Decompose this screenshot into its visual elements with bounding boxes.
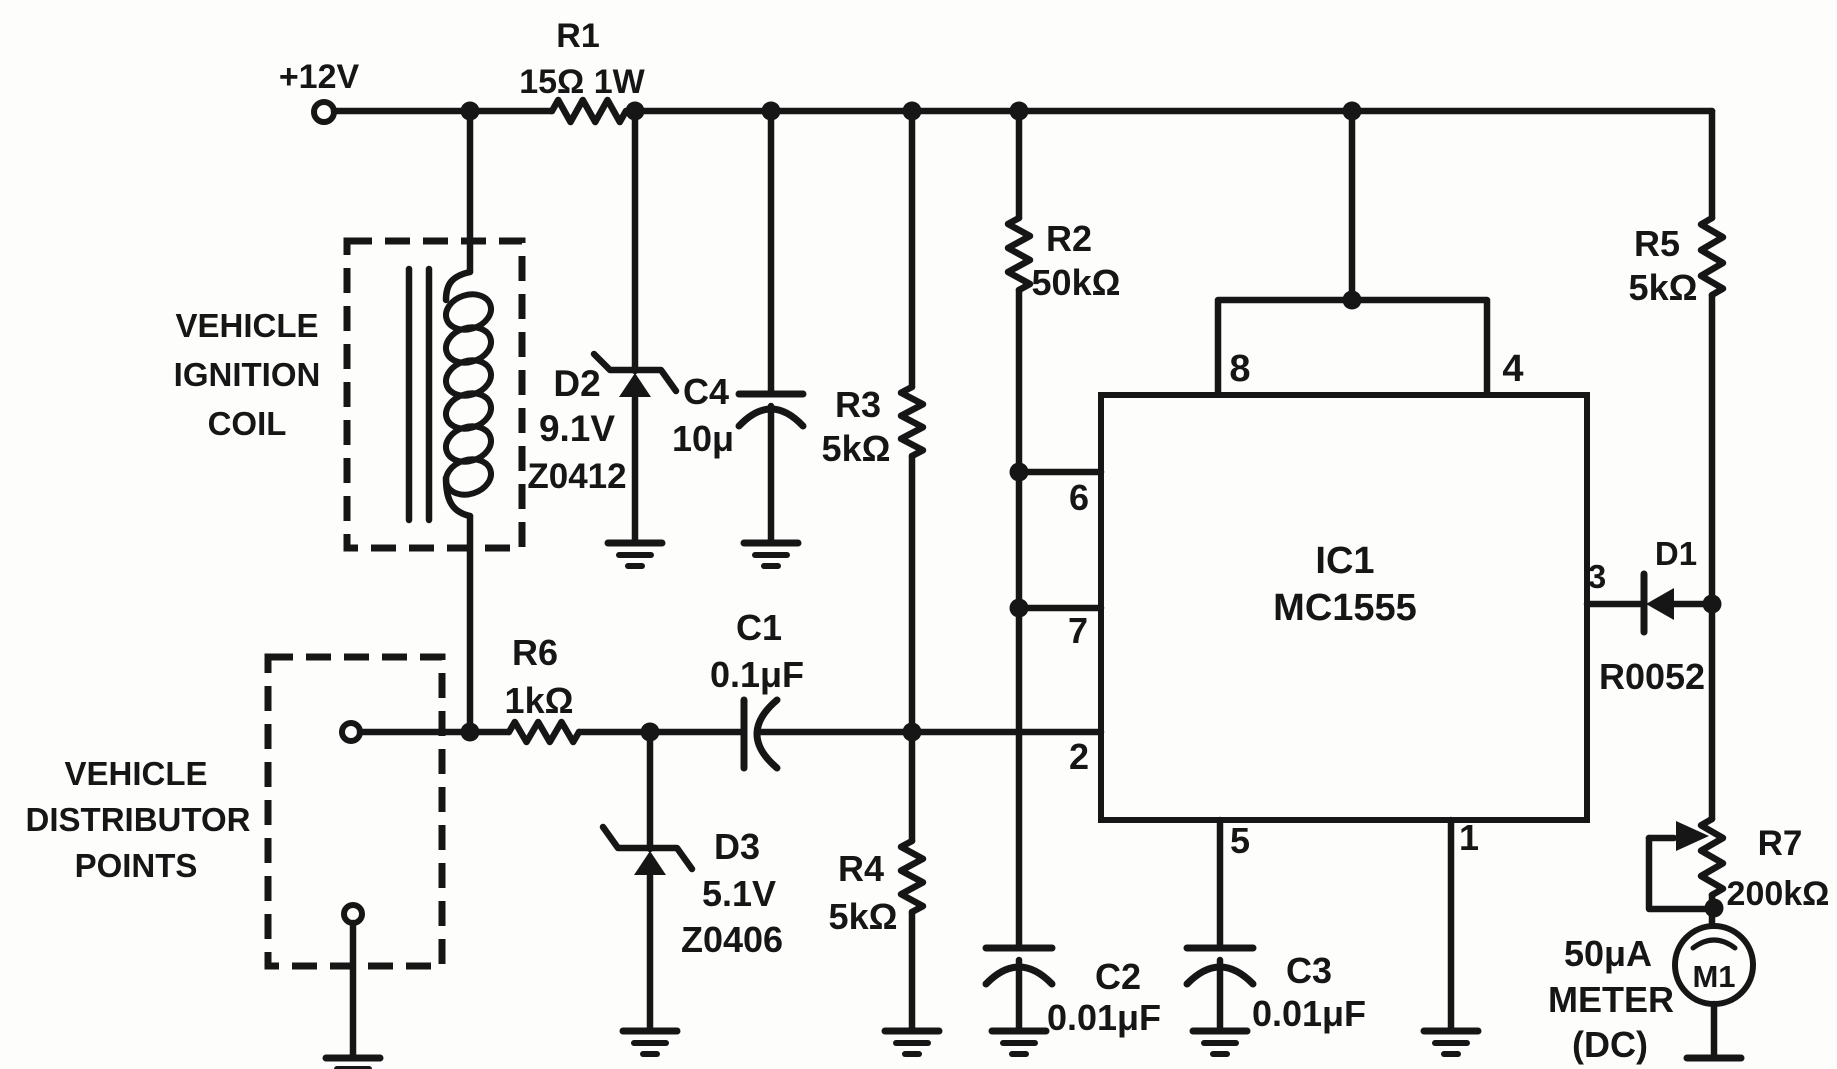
svg-text:D2: D2 bbox=[553, 363, 600, 404]
svg-text:5kΩ: 5kΩ bbox=[1629, 267, 1698, 308]
wire terminal to R6 bbox=[360, 729, 509, 736]
svg-text:C1: C1 bbox=[736, 607, 782, 648]
svg-text:0.01μF: 0.01μF bbox=[1047, 997, 1161, 1038]
svg-text:15Ω 1W: 15Ω 1W bbox=[519, 63, 645, 101]
junction R6 / D3 bbox=[641, 723, 660, 742]
junction points node / coil bbox=[461, 723, 480, 742]
capacitor C3 bbox=[1187, 945, 1253, 952]
ground of C3 bbox=[1193, 1028, 1247, 1035]
svg-text:1kΩ: 1kΩ bbox=[505, 680, 574, 721]
zener diode D3 bbox=[603, 827, 692, 869]
junction top rail / D2 bbox=[626, 102, 645, 121]
ground of meter bbox=[1687, 1055, 1741, 1062]
svg-text:5kΩ: 5kΩ bbox=[822, 428, 891, 469]
wire R4 to ground bbox=[909, 912, 916, 1031]
svg-text:VEHICLE: VEHICLE bbox=[175, 307, 318, 344]
svg-text:200kΩ: 200kΩ bbox=[1727, 875, 1830, 913]
svg-text:0.1μF: 0.1μF bbox=[710, 654, 804, 695]
svg-text:R7: R7 bbox=[1758, 824, 1803, 863]
svg-text:R0052: R0052 bbox=[1599, 656, 1705, 697]
ignition coil dashed box bbox=[347, 241, 522, 548]
ground of R4 bbox=[885, 1028, 939, 1035]
wire pin 7 bbox=[1019, 605, 1101, 612]
junction top rail / pins 8-4 bbox=[1343, 102, 1362, 121]
resistor R5 bbox=[1701, 218, 1723, 295]
resistor R4 bbox=[901, 841, 923, 912]
svg-text:C3: C3 bbox=[1286, 950, 1332, 991]
svg-text:10μ: 10μ bbox=[672, 418, 734, 459]
wire rail down to R3 bbox=[909, 111, 916, 387]
svg-text:MC1555: MC1555 bbox=[1273, 587, 1417, 629]
wire pin 1 bbox=[1448, 820, 1455, 1031]
svg-text:5: 5 bbox=[1230, 820, 1250, 861]
svg-text:D3: D3 bbox=[714, 826, 760, 867]
wire pin2 row down to D3 bbox=[647, 732, 654, 849]
svg-text:METER: METER bbox=[1548, 979, 1674, 1020]
junction top rail / R2 bbox=[1010, 102, 1029, 121]
capacitor C2 bbox=[986, 945, 1052, 952]
wire R6 to C1 bbox=[579, 729, 744, 736]
junction pin2 row / R4 bbox=[903, 723, 922, 742]
wire pin 3 bbox=[1587, 601, 1640, 608]
svg-text:R4: R4 bbox=[838, 848, 884, 889]
svg-text:C4: C4 bbox=[683, 371, 729, 412]
junction bridge top bbox=[1343, 291, 1362, 310]
svg-text:4: 4 bbox=[1502, 348, 1523, 390]
svg-text:0.01μF: 0.01μF bbox=[1252, 993, 1366, 1034]
svg-text:VEHICLE: VEHICLE bbox=[64, 755, 207, 792]
wire pin 6 bbox=[1019, 469, 1101, 476]
wiper return wire of R7 bbox=[1649, 838, 1708, 909]
ground of pin 1 bbox=[1424, 1028, 1478, 1035]
svg-text:50kΩ: 50kΩ bbox=[1032, 262, 1121, 303]
junction top rail / R3 bbox=[903, 102, 922, 121]
junction R7 wiper / meter bbox=[1705, 899, 1724, 918]
svg-text:COIL: COIL bbox=[208, 405, 287, 442]
inductor ignition coil winding bbox=[446, 272, 470, 300]
wire rail down to D2 bbox=[632, 111, 639, 371]
wire distributor terminal to ground bbox=[350, 923, 357, 1058]
zener diode D2 bbox=[594, 354, 676, 391]
svg-text:IC1: IC1 bbox=[1315, 540, 1374, 582]
wiper arrow of R7 bbox=[1649, 835, 1674, 842]
ground of C4 bbox=[744, 540, 798, 547]
svg-text:9.1V: 9.1V bbox=[539, 408, 615, 449]
capacitor C1 bbox=[741, 700, 748, 768]
resistor R3 bbox=[901, 387, 923, 456]
svg-text:1: 1 bbox=[1459, 817, 1479, 858]
node distributor terminal A bbox=[342, 723, 360, 741]
svg-text:DISTRIBUTOR: DISTRIBUTOR bbox=[26, 801, 251, 838]
svg-text:R3: R3 bbox=[835, 384, 881, 425]
node +12V supply terminal bbox=[314, 102, 334, 122]
wire top rail R1 to right corner bbox=[626, 108, 1712, 115]
wire rail down to C4 bbox=[768, 111, 775, 394]
resistor R2 bbox=[1008, 218, 1030, 290]
svg-text:(DC): (DC) bbox=[1572, 1024, 1648, 1065]
wire pin 5 bbox=[1217, 820, 1224, 948]
capacitor C4 bbox=[739, 391, 803, 398]
resistor R7 potentiometer bbox=[1701, 819, 1723, 895]
svg-text:Z0412: Z0412 bbox=[527, 457, 626, 496]
wire R3 to pin2 row bbox=[909, 456, 916, 732]
svg-text:2: 2 bbox=[1069, 736, 1089, 777]
svg-text:IGNITION: IGNITION bbox=[174, 356, 321, 393]
op-amp timer IC1 MC1555 box bbox=[1101, 395, 1587, 820]
junction top rail / ignition coil bbox=[461, 102, 480, 121]
svg-text:5kΩ: 5kΩ bbox=[829, 896, 898, 937]
svg-text:8: 8 bbox=[1229, 348, 1250, 390]
wire rail down to R2 bbox=[1016, 111, 1023, 218]
svg-text:6: 6 bbox=[1069, 477, 1089, 518]
wire R2 down to C2 bbox=[1016, 290, 1023, 948]
wire R5 down to R7 bbox=[1709, 295, 1716, 819]
junction R2 line / pin 6 bbox=[1010, 463, 1029, 482]
wire pin2 row down to R4 bbox=[909, 732, 916, 841]
wire R7 to meter bbox=[1709, 895, 1716, 927]
diode D1 bbox=[1641, 574, 1648, 632]
wire C1 to pin 2 bbox=[760, 729, 1101, 736]
svg-text:+12V: +12V bbox=[279, 58, 360, 96]
ignition coil core bbox=[406, 269, 413, 520]
svg-text:POINTS: POINTS bbox=[75, 847, 198, 884]
svg-text:D1: D1 bbox=[1655, 535, 1697, 572]
meter M1 bbox=[1675, 926, 1753, 1004]
svg-text:M1: M1 bbox=[1692, 959, 1735, 994]
resistor R6 bbox=[509, 722, 579, 742]
svg-text:50μA: 50μA bbox=[1564, 933, 1652, 974]
svg-text:3: 3 bbox=[1588, 558, 1606, 595]
wire right rail down to R5 bbox=[1709, 111, 1716, 218]
svg-text:5.1V: 5.1V bbox=[702, 873, 776, 914]
junction R2 line / pin 7 bbox=[1010, 599, 1029, 618]
svg-text:R1: R1 bbox=[556, 17, 599, 55]
wire rail down to ignition coil bbox=[467, 111, 474, 272]
node distributor terminal B bbox=[344, 905, 362, 923]
wire meter to ground bbox=[1711, 1004, 1718, 1058]
junction top rail / C4 bbox=[762, 102, 781, 121]
junction D1 / right rail bbox=[1703, 595, 1722, 614]
svg-text:R6: R6 bbox=[512, 632, 558, 673]
wire top rail +12V to R1 bbox=[334, 108, 552, 115]
vehicle distributor points dashed box bbox=[268, 657, 442, 966]
wire ignition coil down to points node bbox=[467, 516, 474, 732]
ground of D2 bbox=[608, 540, 662, 547]
svg-text:C2: C2 bbox=[1095, 956, 1141, 997]
svg-text:R2: R2 bbox=[1046, 218, 1092, 259]
wire rail down to pin8-4 bridge bbox=[1349, 111, 1356, 300]
svg-text:R5: R5 bbox=[1634, 223, 1680, 264]
resistor R1 bbox=[552, 100, 626, 122]
svg-text:7: 7 bbox=[1068, 610, 1088, 651]
ground of D3 bbox=[623, 1028, 677, 1035]
wire bridge pins 8 and 4 bbox=[1218, 300, 1487, 395]
ground of C2 bbox=[992, 1028, 1046, 1035]
ground of distributor bbox=[326, 1055, 380, 1062]
svg-text:Z0406: Z0406 bbox=[681, 919, 783, 960]
